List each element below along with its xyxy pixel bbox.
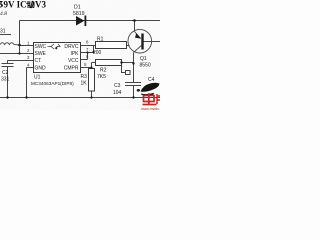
svg-text:C3: C3 — [114, 83, 121, 89]
wire pin7 up to pin8 line — [93, 46, 95, 53]
wire R3 bottom to rail — [91, 91, 93, 98]
transistor Q1 emitter diagonal — [135, 32, 140, 38]
svg-text:331: 331 — [1, 77, 10, 83]
wire pin4 GND stub — [27, 67, 34, 69]
resistor R3 — [89, 69, 95, 92]
svg-text:DRVC: DRVC — [64, 44, 78, 50]
svg-text:9V IC: 9V IC — [4, 0, 27, 10]
svg-text:200: 200 — [93, 50, 102, 56]
svg-text:C4: C4 — [148, 77, 155, 83]
wire C3 to rail — [133, 86, 135, 98]
diode D1 — [76, 16, 86, 27]
wire left vertical from top rail to SWE line — [19, 21, 21, 54]
svg-text:8550: 8550 — [140, 63, 151, 69]
mystery small line top-left — [0, 34, 11, 36]
svg-text:5819: 5819 — [73, 11, 85, 17]
wire battery input line to pin2 SWE — [0, 53, 34, 55]
wire pin5 junction up to R2 line — [91, 63, 93, 69]
capacitor C3 bottom plate — [125, 85, 141, 87]
title text partial first character — [0, 2, 3, 8]
wire bottom ground rail — [0, 97, 160, 99]
wire top rail — [20, 20, 161, 22]
junction dot Q1 top rail — [133, 19, 136, 22]
svg-text:SWE: SWE — [35, 51, 47, 57]
wire Q1 emitter from top rail — [134, 21, 136, 32]
junction dot R2 output node — [120, 61, 122, 63]
junction dot SWE/battery node — [18, 52, 20, 54]
svg-text:CMPR: CMPR — [64, 66, 79, 72]
svg-text:D1: D1 — [74, 5, 81, 11]
svg-text:7K5: 7K5 — [97, 74, 106, 80]
connector tiny box — [126, 71, 131, 75]
wire pin1 SWC stub — [20, 45, 34, 47]
wire pin6 up to pin7 line — [87, 53, 89, 60]
inductor L1 — [0, 43, 20, 45]
svg-text:C2: C2 — [2, 70, 9, 76]
watermark logo dot — [137, 89, 140, 92]
transistor Q1 emitter arrowhead — [135, 33, 142, 39]
resistor R2 — [96, 60, 122, 66]
junction dot pin7 line — [92, 51, 94, 53]
transistor Q1 base bar — [141, 34, 143, 50]
wire pin6 VCC stub — [81, 59, 88, 61]
wire pin3 CT stub — [8, 60, 34, 62]
wire pin7 IPK stub — [81, 52, 94, 54]
junction dot C3 rail — [132, 96, 134, 98]
svg-text:IPK: IPK — [70, 51, 79, 57]
svg-text:www.mydiy.cn: www.mydiy.cn — [141, 107, 160, 110]
wire GND down to rail — [26, 68, 28, 98]
wire CT down to C2 — [7, 61, 9, 64]
junction dot GND rail — [25, 96, 27, 98]
svg-text:R3: R3 — [81, 74, 88, 80]
watermark red partial second character — [157, 94, 160, 104]
svg-text:U1: U1 — [34, 75, 41, 81]
wire R2 feed — [92, 62, 96, 64]
svg-text:V3: V3 — [35, 0, 46, 10]
svg-text:1K: 1K — [81, 81, 88, 87]
capacitor C3 top plate — [125, 82, 141, 84]
svg-text:4.8: 4.8 — [0, 10, 7, 17]
wire down to C3 — [133, 64, 135, 83]
wire C2 to ground rail — [7, 67, 9, 98]
svg-text:VCC: VCC — [68, 58, 79, 64]
transistor Q1 circle — [128, 29, 152, 53]
watermark logo swoosh — [141, 83, 160, 92]
svg-text:GND: GND — [35, 66, 47, 72]
svg-text:MC34063AP1(DIP8): MC34063AP1(DIP8) — [31, 81, 74, 86]
wire Q1 base lead right — [144, 41, 160, 43]
svg-text:SWC: SWC — [35, 44, 47, 50]
title character ban — [26, 1, 34, 8]
wire pin8 DRVC to R1 — [81, 45, 96, 47]
svg-text:R2: R2 — [100, 68, 107, 74]
wire R1 right to Q1 — [127, 45, 130, 47]
capacitor C2 top plate — [2, 63, 14, 65]
junction dot pin5 node — [90, 66, 92, 68]
watermark logo tail — [141, 93, 154, 96]
junction dot pin6 line — [86, 51, 88, 53]
IC U1 box — [34, 43, 81, 73]
junction dot L1/SWC node — [18, 44, 21, 47]
junction dot R3 rail — [90, 96, 92, 98]
junction dot collector node — [132, 62, 134, 64]
junction dot C2 rail — [6, 96, 8, 98]
wire R2 right to output node — [122, 62, 134, 64]
svg-text:CT: CT — [35, 58, 42, 64]
wire node step down to connector — [122, 63, 126, 73]
darlington doodle inside U1 — [48, 44, 61, 50]
svg-text:104: 104 — [113, 90, 122, 96]
resistor R1 — [96, 42, 127, 49]
wire Q1 collector down to output node — [133, 52, 135, 63]
watermark red character chong — [143, 93, 157, 104]
capacitor C2 bottom plate — [2, 66, 14, 68]
wire pin5 CMPR stub — [81, 67, 92, 69]
svg-text:R1: R1 — [97, 37, 104, 43]
transistor Q1 collector diagonal — [134, 46, 142, 53]
svg-text:31: 31 — [0, 29, 6, 35]
svg-text:Q1: Q1 — [140, 56, 147, 62]
